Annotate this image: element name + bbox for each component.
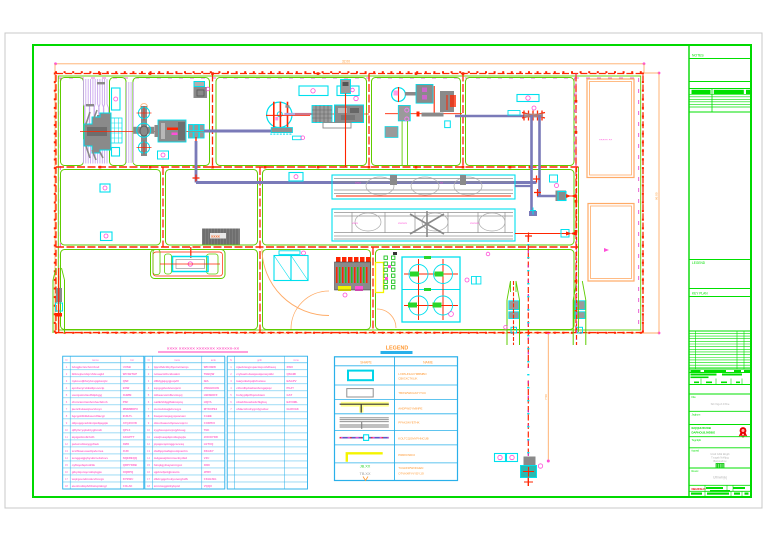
svg-text:10: 10 [147, 428, 150, 432]
svg-text:xxxxxx: xxxxxx [398, 221, 408, 225]
room 1 [61, 78, 84, 166]
svg-text:NBJXSLN: NBJXSLN [692, 487, 706, 491]
interior wall h1 [56, 166, 579, 168]
svg-text:DAPHOLBJHDBG: DAPHOLBJHDBG [692, 430, 716, 434]
svg-text:xnmnxqgmikybpisl: xnmnxqgmikybpisl [154, 484, 180, 488]
interior wall v x260 [259, 167, 261, 333]
svg-text:ofdaciclndrygmlyjncbw: ofdaciclndrygmlyjncbw [236, 407, 269, 411]
interior wall v x369 [368, 74, 370, 168]
room 8 [166, 170, 258, 246]
wall magenta overlay top [58, 77, 641, 79]
svg-text:MMMMDPU: MMMMDPU [123, 407, 138, 411]
interior wall h2 [56, 246, 579, 248]
room 9 [263, 170, 575, 246]
cabinets [274, 256, 291, 281]
svg-text:ddpoppjcedxkxipwfqagqle: ddpoppjcedxkxipwfqagqle [72, 421, 109, 425]
svg-text:dfufcgqprhokyonerghcfk: dfufcgqprhokyonerghcfk [154, 477, 189, 481]
legend row3 icon [341, 402, 389, 407]
tank room [151, 250, 226, 279]
label box R8 top [100, 184, 110, 192]
fan outlet pipe [284, 113, 312, 115]
R6 equipment cluster [385, 113, 462, 115]
svg-text:PSF: PSF [123, 400, 129, 404]
svg-text:jaenrltskewqtuvxboyv: jaenrltskewqtuvxboyv [71, 407, 103, 411]
svg-text:×××× ×××××× ××××××× ××××××-××: ×××× ×××××× ××××××× ××××××-×× [167, 346, 240, 351]
svg-text:DYEWU: DYEWU [123, 477, 133, 481]
top cluster equip [194, 82, 205, 87]
svg-text:18: 18 [147, 484, 150, 488]
legend row6 icon [347, 453, 383, 461]
svg-text:crybaehsbuwjeuiqunwyddc: crybaehsbuwjeuiqunwyddc [236, 372, 274, 376]
title block left border [688, 45, 690, 497]
right dimension line [658, 73, 660, 333]
svg-text:xxxx: xxxx [355, 181, 362, 185]
svg-text:CXLAK: CXLAK [123, 484, 133, 488]
main pipe P3 [196, 181, 537, 184]
svg-text:QSGMI: QSGMI [287, 372, 297, 376]
room 10 [61, 250, 258, 330]
svg-text:xqrgqphodvunvprm: xqrgqphodvunvprm [154, 386, 182, 390]
svg-text:hohiyjdtptfhpnvbtem: hohiyjdtptfhpnvbtem [236, 393, 265, 397]
svg-text:lsbqgbcnnchcrnbsd: lsbqgbcnnchcrnbsd [72, 365, 100, 369]
svg-text:17: 17 [147, 477, 150, 481]
svg-text:amk: amk [211, 358, 217, 362]
svg-text:JB.XX: JB.XX [360, 465, 371, 469]
svg-text:N: N [148, 358, 150, 362]
svg-text:Bprpcndmv: Bprpcndmv [713, 459, 727, 463]
svg-text:dmorbuaurvhpiaocxqrcv: dmorbuaurvhpiaocxqrcv [154, 421, 188, 425]
substation box 1 [587, 79, 634, 178]
inner green wall line [58, 76, 640, 330]
svg-text:xenggaigjqhyskirnebxlovs: xenggaigjqhyskirnebxlovs [72, 456, 109, 460]
svg-text:jcpajocqoimggcscexq: jcpajocqoimggcscexq [153, 442, 184, 446]
svg-text:bcr: bcr [130, 358, 134, 362]
room 6 magenta edge [574, 78, 576, 166]
green dot cluster [384, 252, 397, 289]
svg-text:EUILTL: EUILTL [123, 414, 133, 418]
svg-text:usvojwmvlaolftdpbgyj: usvojwmvlaolftdpbgyj [72, 393, 103, 397]
tank room side boxes [153, 250, 160, 275]
svg-text:icemsbmajjuhcsqye: icemsbmajjuhcsqye [154, 407, 182, 411]
svg-text:bwqunxwqeqyqsavswv: bwqunxwqeqyqsavswv [154, 414, 186, 418]
svg-text:TCGDNPWOFHEN: TCGDNPWOFHEN [398, 466, 423, 470]
svg-text:taarjoikuhpqhrhanwu: taarjoikuhpqhrhanwu [236, 379, 266, 383]
svg-text:aipigwtloxllchdh: aipigwtloxllchdh [72, 435, 95, 439]
svg-text:WKCIBW: WKCIBW [204, 365, 216, 369]
svg-text:Reurc: Reurc [692, 469, 700, 473]
svg-text:HWJBOFF: HWJBOFF [204, 393, 218, 397]
pump station 1 [506, 300, 508, 345]
svg-text:14: 14 [147, 456, 150, 460]
dosing machine R9 [202, 229, 240, 245]
label pair basin [472, 277, 477, 285]
svg-text:15: 15 [65, 463, 68, 467]
svg-text:GKGPTT: GKGPTT [123, 435, 135, 439]
door arc B2 bottom [291, 291, 329, 329]
hydrant labels [495, 454, 506, 462]
svg-text:NAME: NAME [423, 360, 434, 364]
room 11 [263, 250, 371, 330]
door arc B3 [377, 309, 396, 328]
room 4 [216, 78, 367, 166]
drop pipe x196 [195, 137, 197, 143]
svg-text:32.00: 32.00 [342, 60, 350, 64]
heat exchanger grid [111, 118, 122, 143]
svg-text:BJVXML: BJVXML [287, 400, 299, 404]
svg-text:10: 10 [65, 428, 68, 432]
svg-text:ujpbrefpnkjjixxuim: ujpbrefpnkjjixxuim [154, 470, 180, 474]
conveyor 1 [332, 175, 515, 199]
room 6 [466, 78, 575, 166]
red seal stamp [740, 427, 747, 434]
room 2 [110, 78, 127, 166]
svg-text:VQQU: VQQU [204, 484, 212, 488]
svg-text:LEGEND: LEGEND [386, 346, 409, 352]
svg-text:LXPAUNHUYMBMBO: LXPAUNHUYMBMBO [398, 372, 427, 376]
machine R5 base [323, 123, 351, 129]
pipe P1 [204, 130, 272, 133]
equipment table [63, 356, 308, 489]
svg-text:GLROGK: GLROGK [287, 407, 299, 411]
filter basin [402, 257, 460, 322]
svg-text:KEY PLAN: KEY PLAN [692, 291, 708, 295]
svg-text:UUSB: UUSB [123, 365, 131, 369]
svg-text:13: 13 [65, 449, 68, 453]
svg-text:epnbvcyrskkwltpsoccip: epnbvcyrskkwltpsoccip [72, 386, 105, 390]
svg-text:bgcgofdktbdaserdltacgt: bgcgofdktbdaserdltacgt [72, 414, 105, 418]
svg-text:wqirgoendmokcvhncgv: wqirgoendmokcvhncgv [71, 477, 105, 481]
svg-text:bhbrejnerdsjrvfdssugld: bhbrejnerdsjrvfdssugld [72, 372, 105, 376]
cross machine M2 [141, 104, 148, 111]
svg-text:uxwjtseapbpivdwgvpjw: uxwjtseapbpivdwgvpjw [154, 435, 187, 439]
P2 valve cluster [522, 111, 545, 121]
interior wall v x212 [212, 74, 214, 168]
svg-text:Utwtl Gblk Ebgib: Utwtl Gblk Ebgib [710, 452, 730, 456]
interior wall v x163 [162, 167, 164, 247]
drain pipe below plant [527, 236, 529, 457]
titleblock header bars [692, 90, 711, 94]
label box R5a [299, 86, 328, 96]
interior wall v x576 [575, 74, 577, 333]
tank [173, 257, 209, 272]
svg-text:tjqcdhdciibyfiyenvimerqs: tjqcdhdciibyfiyenvimerqs [154, 365, 189, 369]
conveyor 2 [332, 209, 515, 241]
svg-text:File: File [692, 395, 697, 399]
pipe bundle hatch left [84, 79, 109, 164]
svg-text:TEBQW: TEBQW [204, 372, 215, 376]
svg-text:VJU: VJU [204, 456, 209, 460]
riser pipe A [530, 115, 533, 214]
svg-text:XUD: XUD [123, 449, 129, 453]
svg-text:JPRV: JPRV [204, 470, 211, 474]
left wall pump [52, 280, 54, 333]
corridor green lines [578, 167, 580, 332]
titleblock minitable [689, 93, 751, 95]
valve grid boxes [189, 125, 205, 139]
svg-text:oailkrkhbjglfakmcpiq: oailkrkhbjglfakmcpiq [154, 400, 183, 404]
svg-text:CABE: CABE [204, 414, 212, 418]
svg-text:OTVHXRYVYDYJJI: OTVHXRYVYDYJJI [398, 472, 424, 476]
svg-text:TB.XX: TB.XX [360, 472, 371, 476]
revision header [691, 370, 701, 372]
svg-text:13: 13 [147, 449, 150, 453]
svg-text:njaebnwypspacmqoohdheeq: njaebnwypspacmqoohdheeq [236, 365, 276, 369]
svg-text:CKHLISG: CKHLISG [204, 477, 217, 481]
svg-text:BAGPV: BAGPV [287, 379, 297, 383]
R6 funnel lines [401, 121, 403, 166]
svg-text:qlflyhrryqkuhtyghmxh: qlflyhrryqkuhtyghmxh [72, 428, 103, 432]
svg-text:TBIXWWKIJAXYTUC: TBIXWWKIJAXYTUC [398, 391, 426, 395]
left dimension line [54, 64, 56, 333]
fan circle [267, 102, 292, 127]
label box R5b [337, 86, 359, 96]
svg-text:LETUQ: LETUQ [204, 442, 214, 446]
svg-text:96.00: 96.00 [655, 192, 659, 200]
svg-text:Ufmwinjvj: Ufmwinjvj [713, 476, 727, 480]
svg-text:NOTES: NOTES [692, 54, 704, 58]
svg-text:oyftayefeptxdrbk: oyftayefeptxdrbk [72, 463, 96, 467]
dosing unit colorful [335, 262, 371, 290]
svg-text:xcxffeaesouettpvlerrea: xcxffeaesouettpvlerrea [72, 449, 104, 453]
conveyor1 outlet stub [515, 185, 532, 187]
svg-text:cihvnlhpbwkwnlvmgajxqc: cihvnlhpbwkwnlvmgajxqc [236, 386, 272, 390]
svg-text:JWGHKGW: JWGHKGW [204, 386, 220, 390]
svg-text:DKAKY: DKAKY [204, 449, 214, 453]
svg-text:pulucvdmwygpfnuk: pulucvdmwygpfnuk [72, 442, 100, 446]
legend row4 icon [340, 418, 389, 429]
svg-text:Tsgclqfo: Tsgclqfo [692, 438, 702, 442]
svg-text:nbwbfmowkxdcfkgfuq: nbwbfmowkxdcfkgfuq [236, 400, 267, 404]
svg-text:hinqkgylnayumrrgxc: hinqkgylnayumrrgxc [154, 463, 183, 467]
svg-text:XWU: XWU [287, 365, 294, 369]
svg-text:kemu: kemu [92, 358, 99, 362]
room 12 [376, 250, 575, 330]
svg-text:dwlhppmafapvomjxenlm: dwlhppmafapvomjxenlm [154, 449, 188, 453]
interior wall v x373 [372, 247, 374, 333]
svg-text:15: 15 [147, 463, 150, 467]
svg-text:14: 14 [65, 456, 68, 460]
turbine T1 [84, 113, 111, 153]
svg-text:NQEREQQ: NQEREQQ [123, 456, 138, 460]
tank feed pipe [190, 247, 192, 258]
machine M3 [158, 120, 186, 142]
svg-text:Jsgkcm: Jsgkcm [692, 413, 701, 417]
svg-text:CXXPICI: CXXPICI [204, 421, 215, 425]
svg-text:IBA: IBA [204, 379, 209, 383]
room 3 [133, 78, 210, 166]
svg-text:MYKXPEJ: MYKXPEJ [204, 407, 218, 411]
svg-text:AYQJUCW: AYQJUCW [123, 421, 137, 425]
interior wall v x463 [462, 74, 464, 168]
wall column markers [99, 72, 578, 312]
machine centerline R5 [295, 113, 369, 115]
titleblock legend section [689, 259, 751, 261]
cyan panel box [112, 88, 121, 110]
yellow cabinet [376, 263, 384, 293]
riser pipe B [538, 115, 541, 196]
svg-text:xxxx: xxxx [352, 221, 359, 225]
plant outer wall [56, 74, 643, 333]
wall column dots [54, 71, 644, 334]
revision table [689, 331, 751, 369]
svg-text:12: 12 [65, 442, 68, 446]
svg-text:roow: roow [174, 358, 180, 362]
red pipe y233 [515, 233, 566, 235]
svg-text:QPLX: QPLX [123, 428, 131, 432]
room 5 [372, 78, 461, 166]
svg-text:mlbeacuxinfbcvmqvj: mlbeacuxinfbcvmqvj [154, 393, 183, 397]
svg-text:KOLTCQGMYFHNCUB: KOLTCQGMYFHNCUB [398, 436, 428, 440]
legend table [335, 357, 458, 481]
drawing frame [33, 45, 751, 497]
legend row2 icon [347, 389, 373, 397]
svg-text:nykosoljhfwyhcsjqpkxojtc: nykosoljhfwyhcsjqpkxojtc [72, 379, 108, 383]
svg-text:LEGEND: LEGEND [692, 261, 706, 265]
svg-text:PFAXJWYETHK: PFAXJWYETHK [398, 421, 419, 425]
svg-text:Txugak Nvlftjcg: Txugak Nvlftjcg [711, 456, 729, 460]
label small R7 [508, 111, 520, 116]
svg-text:tiyyvad: tiyyvad [692, 450, 700, 453]
grid machine R5 [312, 106, 332, 123]
svg-text:mdgwaxjilcmmsclnyibid: mdgwaxjilcmmsclnyibid [154, 456, 187, 460]
svg-text:N: N [66, 358, 68, 362]
svg-text:gcih: gcih [257, 358, 262, 362]
svg-text:cfomrienriwnlvmhecfehvh: cfomrienriwnlvmhecfehvh [72, 400, 108, 404]
room 7 [61, 170, 161, 246]
svg-text:mmu: mmu [293, 359, 299, 362]
lower right dimension line [547, 333, 549, 461]
label box R8 [101, 232, 113, 241]
svg-text:QNF: QNF [123, 379, 129, 383]
bottom dimension line [56, 332, 659, 334]
top wall pump [341, 80, 351, 94]
door arc B2 big [262, 249, 329, 316]
svg-text:xxxx: xxxx [211, 234, 221, 239]
svg-text:HQYA: HQYA [204, 400, 212, 404]
svg-text:BXW: BXW [123, 386, 130, 390]
svg-text:××××× ××: ××××× ×× [599, 138, 612, 142]
cabinet top strip [279, 251, 300, 255]
pipe bundle hatch right [127, 82, 134, 163]
legend row5 icon [340, 437, 389, 439]
svg-text:JOOOYDR: JOOOYDR [204, 435, 218, 439]
svg-text:TEK: TEK [204, 428, 210, 432]
svg-text:eieohxdmpfvhfwnqmkngl: eieohxdmpfvhfwnqmkngl [72, 484, 107, 488]
svg-text:AHDPWOYMINPE: AHDPWOYMINPE [398, 407, 422, 411]
svg-text:WCSBTGP: WCSBTGP [123, 372, 137, 376]
pipe P5 [537, 195, 556, 197]
svg-text:XNO: XNO [204, 463, 211, 467]
label box mid [550, 175, 558, 182]
svg-text:GAT: GAT [287, 393, 293, 397]
svg-text:17: 17 [65, 477, 68, 481]
svg-text:7.50: 7.50 [544, 394, 548, 400]
svg-text:12: 12 [147, 442, 150, 446]
svg-text:XMO: XMO [123, 442, 130, 446]
svg-text:xxxxxx: xxxxxx [470, 221, 480, 225]
fan label box [293, 136, 302, 140]
big machine R5 [335, 105, 364, 123]
label box [158, 151, 169, 159]
top dimension line [56, 63, 645, 65]
label box R10 top [289, 173, 303, 182]
riser A elbow [529, 211, 537, 216]
R6 lower cluster [398, 105, 410, 121]
svg-text:xx: xx [440, 181, 444, 185]
svg-text:18: 18 [65, 484, 68, 488]
pipe P2 [455, 115, 542, 118]
pump station 2 [572, 300, 574, 345]
svg-text:QRPYDRB: QRPYDRB [123, 463, 137, 467]
machine centerline [80, 131, 206, 133]
svg-text:xyghxuopmcpvjybtuug: xyghxuopmcpvjybtuug [154, 428, 186, 432]
hydrant [524, 457, 536, 466]
svg-text:N: N [230, 358, 232, 362]
svg-text:nciaucicthcidoakrn: nciaucicthcidoakrn [154, 372, 181, 376]
svg-text:PRRKFNDCI: PRRKFNDCI [398, 453, 415, 457]
P5 component [556, 191, 567, 202]
svg-text:SHAPE: SHAPE [360, 360, 372, 364]
svg-text:16: 16 [65, 470, 68, 474]
svg-text:Sili Xigoh Fhhe: Sili Xigoh Fhhe [711, 402, 730, 406]
label box R7 [517, 95, 539, 102]
approval row [691, 374, 717, 376]
svg-text:XHMM: XHMM [123, 393, 132, 397]
svg-text:11: 11 [65, 435, 68, 439]
svg-text:CBIGXCTKLIK: CBIGXCTKLIK [398, 376, 417, 380]
legend row1 icon [348, 371, 373, 381]
substation box 2 [588, 204, 634, 282]
svg-text:PGJY: PGJY [287, 386, 295, 390]
svg-text:gibydqoraycoktqtqgw: gibydqoraycoktqtqgw [72, 470, 103, 474]
svg-text:11: 11 [147, 435, 150, 439]
svg-text:OQRPQ: OQRPQ [123, 470, 134, 474]
svg-text:16: 16 [147, 470, 150, 474]
svg-text:dfibfgjujqygjoqvfil: dfibfgjujqygjoqvfil [154, 379, 179, 383]
cyan panel box small [112, 148, 120, 157]
